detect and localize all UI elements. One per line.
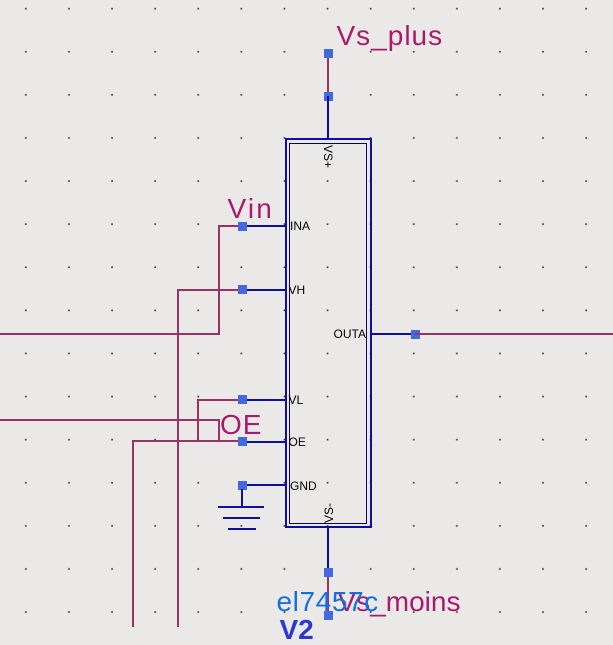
pin VS+ stub (top of U1) [327,96,329,139]
ground bar 3 [228,528,256,530]
node square Vs_plus top [324,49,333,58]
wire VH vertical down to bottom edge [177,289,179,627]
node square Vs_moins bottom [324,611,333,620]
value label el7457c [277,588,379,616]
node Vin label [228,195,275,223]
wire lower horizontal y441 [132,440,242,442]
node square OUTA [411,330,420,339]
node square VL [238,395,247,404]
pin OUTA [370,333,416,335]
pin label INA [290,220,310,232]
refdes V2 (clipped at bottom) [280,616,314,644]
pin label OUTA [334,328,366,340]
ground bar 2 [223,517,260,519]
wire Vs_plus vertical segment between squares [327,53,329,96]
pin label VH [289,284,306,296]
op-amp U1 outer body [285,138,372,528]
node OE label [220,411,262,439]
pin VS- stub (bottom of U1) [327,527,329,572]
wire OUTA to right edge [415,333,613,335]
node square VH [238,285,247,294]
pin VH [242,289,286,291]
wire VH horizontal [177,289,242,291]
pin INA [242,225,286,227]
pin OE [242,441,286,443]
wire Vs_moins vertical between squares [327,572,329,616]
wire VL vertical [197,399,199,442]
pin GND [242,484,286,486]
wire OE vertical short [218,419,220,441]
wire vertical down-left to bottom edge [132,440,134,627]
pin label VS- (rotated) [323,503,335,523]
ground symbol stub [241,489,243,507]
wire Vin horizontal to INA [218,225,242,227]
pin label GND [290,480,317,492]
node square Vs_plus bottom [324,92,333,101]
wire Vin vertical down [218,225,220,335]
node square INA [238,222,247,231]
node Vs_moins label [338,588,461,616]
ground bar 1 [218,506,264,508]
wire OE long horizontal left [0,419,220,421]
wire net1 long horizontal left [0,333,220,335]
node square OE [238,437,247,446]
pin label VS+ (rotated) [322,145,334,168]
node square Vs_moins top [324,568,333,577]
op-amp U1 inner body [289,143,368,524]
wire VL horizontal [197,399,242,401]
pin label OE [289,436,306,448]
pin VL [242,399,286,401]
node square GND [238,481,247,490]
node Vs_plus label [337,22,444,50]
pin label VL [289,394,304,406]
